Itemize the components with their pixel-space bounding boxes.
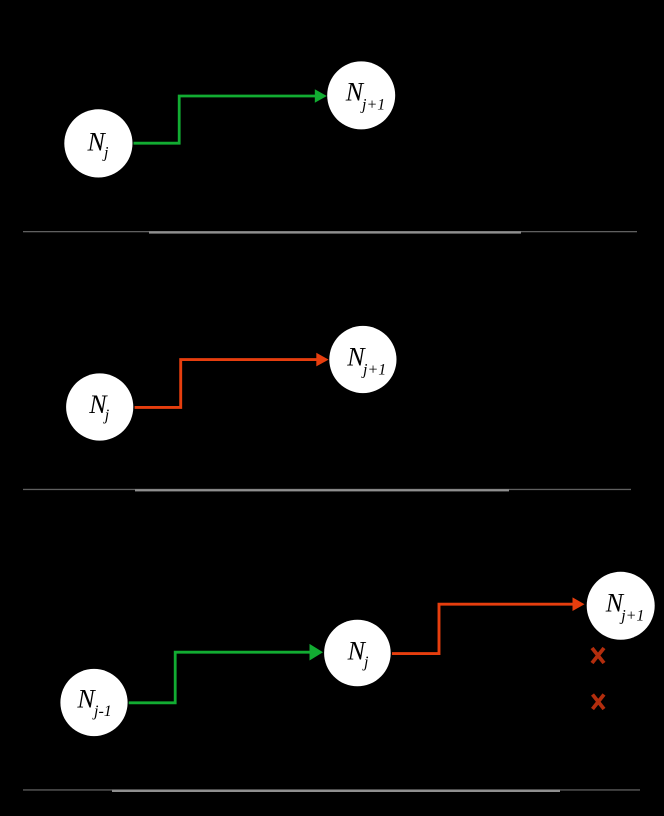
wire green elbow arrow panel 3 <box>129 644 323 703</box>
node Nj+1 panel 3 <box>587 572 655 640</box>
wire red elbow arrow panel 2 <box>135 353 329 408</box>
node Nj panel 1 <box>64 109 132 177</box>
svg-text:j: j <box>362 654 369 671</box>
wire red elbow arrow panel 3 <box>392 597 585 653</box>
x mark 1 (rejected edge) <box>592 648 604 663</box>
svg-text:j: j <box>103 407 110 424</box>
svg-text:j+1: j+1 <box>361 362 386 379</box>
svg-text:j-1: j-1 <box>92 703 112 720</box>
separator line 3 <box>23 789 640 792</box>
svg-text:j+1: j+1 <box>619 608 644 625</box>
separator line 2 <box>23 489 631 492</box>
node Nj-1 panel 3 <box>60 669 127 736</box>
wire green elbow arrow panel 1 <box>134 89 327 143</box>
node Nj+1 panel 2 <box>329 326 396 393</box>
separator line 1 <box>23 231 637 234</box>
svg-text:j+1: j+1 <box>360 97 385 114</box>
svg-text:j: j <box>102 145 109 162</box>
node Nj panel 3 <box>324 620 391 687</box>
node Nj panel 2 <box>66 373 133 440</box>
node Nj+1 panel 1 <box>327 61 395 129</box>
x mark 2 (rejected edge) <box>593 695 605 710</box>
